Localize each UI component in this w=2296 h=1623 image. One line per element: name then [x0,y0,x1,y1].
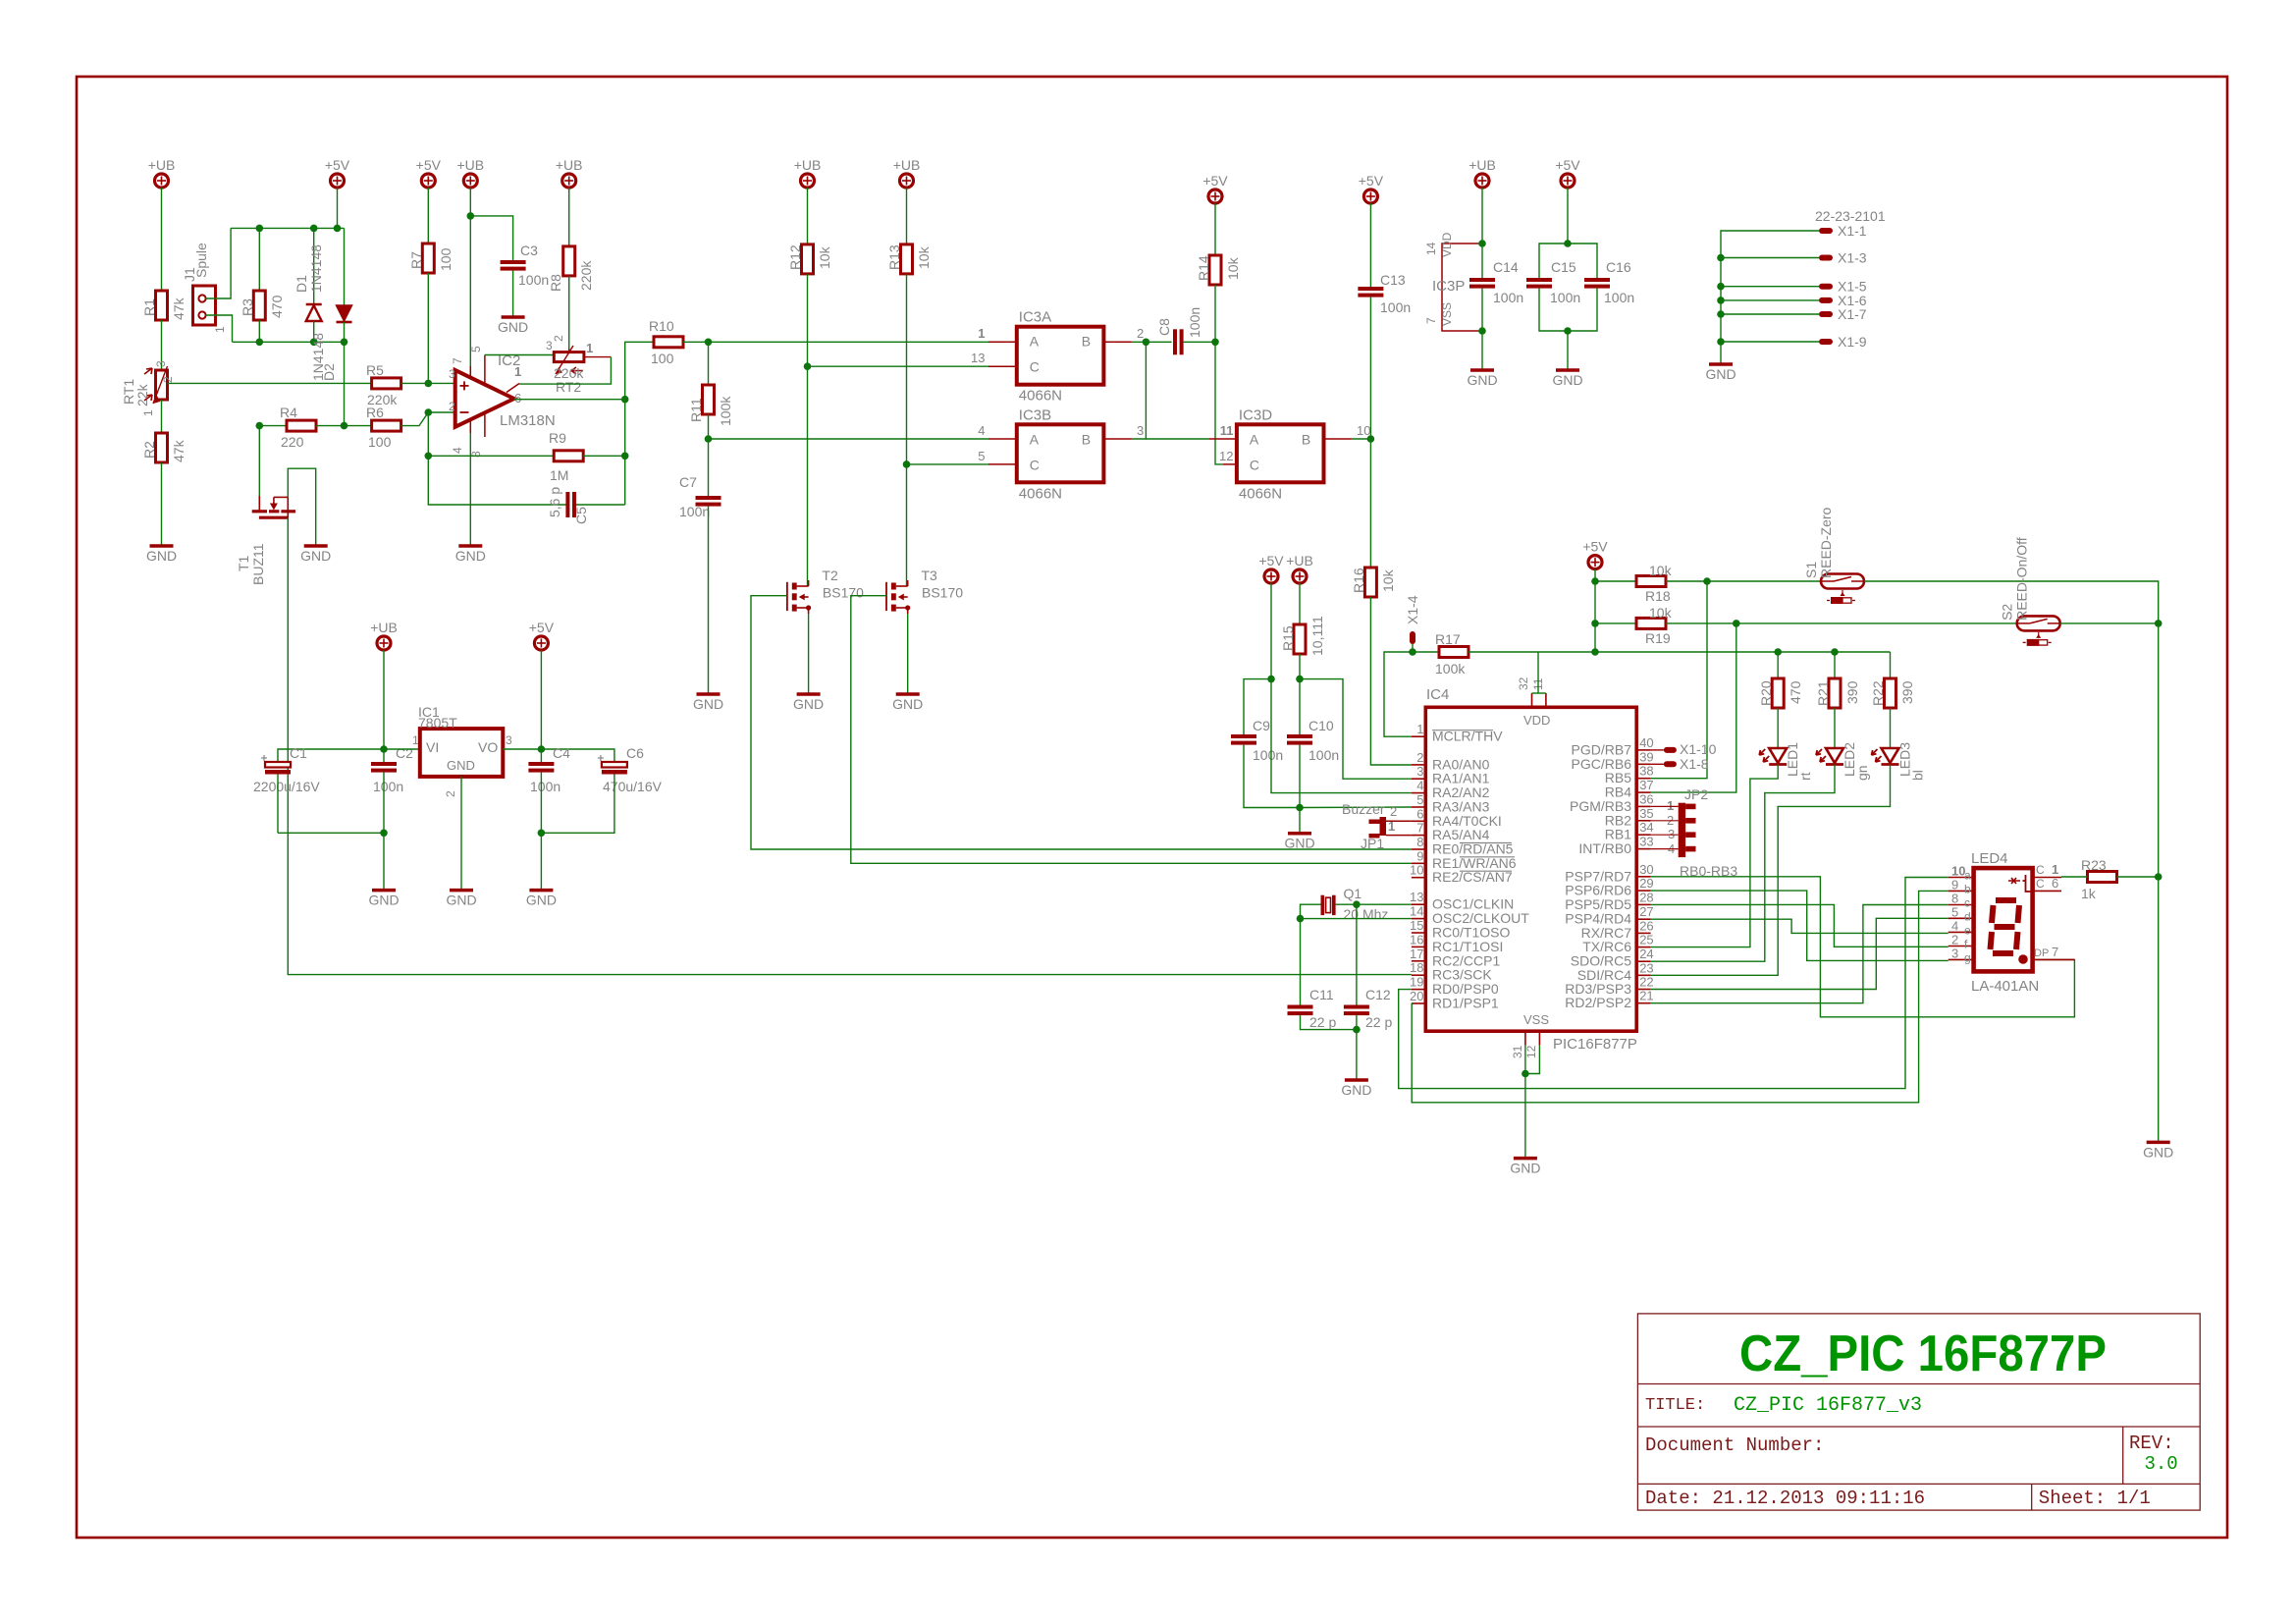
wire to GND [540,833,542,890]
svg-text:C: C [2036,863,2045,877]
svg-text:1: 1 [586,341,593,355]
svg-text:25: 25 [1639,933,1653,947]
svg-text:+5V: +5V [1258,553,1284,568]
ground (op-amp) [455,546,486,564]
wire R5 to +input [401,382,455,384]
svg-text:PIC16F877P: PIC16F877P [1553,1036,1637,1053]
svg-text:22-23-2101: 22-23-2101 [1815,208,1886,224]
wire IC3D pin10 stub [1324,423,1371,439]
svg-text:27: 27 [1639,904,1653,919]
resistor R17 100k [1435,631,1468,676]
wire C13 down [1369,298,1371,568]
connector pin X1-6 [1819,293,1867,308]
node (OSC1/C12) [1353,900,1361,908]
node [1717,297,1725,304]
wire -input col down [427,412,429,456]
svg-text:100n: 100n [373,779,403,794]
svg-text:17: 17 [1410,947,1423,961]
svg-text:10: 10 [1357,423,1370,438]
svg-text:GND: GND [1552,372,1582,388]
wire JP2 pin [1651,805,1679,807]
node (R11/C7/IC3B) [705,435,713,443]
svg-text:+UB: +UB [456,157,484,173]
wire to IC3B pin5 [907,463,989,465]
wire R4-R6 [316,425,372,427]
svg-text:100n: 100n [1550,290,1580,305]
svg-text:X1-4: X1-4 [1405,595,1420,624]
wire JP2 pin [1651,834,1679,836]
connector J1 Spule [182,243,227,333]
wire S1 right [1864,581,2159,623]
power +5V (R7) [416,157,442,188]
svg-text:R14: R14 [1196,255,1211,281]
svg-text:A: A [1030,431,1040,447]
svg-text:R22: R22 [1870,680,1886,706]
svg-text:C12: C12 [1365,987,1391,1002]
svg-text:24: 24 [1639,947,1653,961]
svg-text:1: 1 [213,326,227,333]
svg-text:JP2: JP2 [1684,786,1708,802]
wire pin30 to DP [1651,877,2075,1017]
wire top rail [231,227,344,229]
wire RB4 col [1651,623,1736,792]
capacitor C15 100n [1526,259,1580,305]
node (D2 bottom) [341,339,348,347]
svg-text:GND: GND [447,758,475,773]
wire T1 drain to GND [288,468,315,546]
wire R19 to S2 [1666,622,2017,624]
svg-text:A: A [1250,431,1259,447]
svg-text:Document Number:: Document Number: [1645,1434,1824,1456]
svg-text:+UB: +UB [1468,157,1496,173]
svg-text:8: 8 [1951,892,1958,906]
svg-text:2200u/16V: 2200u/16V [253,779,320,794]
svg-text:100n: 100n [1187,307,1202,338]
voltage regulator IC1 7805T [412,704,512,797]
node (C15 top) [1564,240,1572,247]
node (C10 bottom) [1296,804,1304,812]
wire [161,462,163,546]
node (C10 row +UB) [1296,676,1304,683]
svg-text:34: 34 [1639,820,1653,835]
analog switch IC3B 4066N [1017,406,1104,502]
wire OSC2 [1301,918,1412,920]
title block [1637,1314,2200,1510]
svg-text:21: 21 [1639,989,1653,1003]
wire to C3 [470,216,512,260]
power +5V (C13) [1359,173,1384,203]
svg-text:X1-1: X1-1 [1838,223,1867,239]
analog switch IC3D 4066N [1237,406,1324,502]
node (C14 bottom) [1478,327,1486,335]
svg-text:8: 8 [1416,835,1423,849]
svg-text:3: 3 [506,733,512,747]
jumper JP2 RB0-RB3 [1667,786,1737,879]
power +UB (IC3P) [1468,157,1496,188]
svg-text:100n: 100n [1253,747,1283,763]
resistor R19 10k [1636,605,1673,646]
wire R11 down [708,342,710,385]
wire C10 bottom [1299,745,1301,808]
wire C6 bottom [541,775,614,834]
wire [1214,203,1216,255]
svg-text:R23: R23 [2081,857,2107,873]
node (R10/R11) [705,339,713,347]
wire bottom rail [233,341,345,343]
svg-text:5: 5 [978,449,985,463]
svg-text:4066N: 4066N [1019,485,1062,502]
svg-text:Spule: Spule [193,243,209,278]
IC4 right pins [1565,735,1653,1010]
wire [1567,188,1569,243]
svg-text:+5V: +5V [1202,173,1228,189]
node (C9 row +5V) [1267,676,1275,683]
svg-text:+UB: +UB [794,157,822,173]
svg-text:RD1/PSP1: RD1/PSP1 [1432,996,1499,1011]
capacitor C6 470u/16V [598,745,663,794]
svg-text:2: 2 [1951,933,1958,947]
svg-text:IC3B: IC3B [1019,406,1051,423]
svg-text:C: C [1030,359,1040,375]
resistor R16 10k [1351,568,1396,597]
connector pin X1-7 [1819,306,1867,322]
wire X1 bus [1721,231,1819,364]
capacitor C4 100n [528,745,570,794]
wire R12 to T2 drain [807,274,809,586]
power +UB (op-amp V+) [456,157,484,188]
wire LED3 cathode [1651,765,1891,976]
wire R6 jog to -input [401,412,455,426]
wire LED1 cathode [1651,765,1779,947]
capacitor C1 2200u/16V [253,745,320,794]
svg-text:R16: R16 [1351,568,1366,593]
svg-text:100n: 100n [518,272,549,288]
node (X1-4/R17) [1409,648,1416,656]
svg-text:10k: 10k [817,245,832,269]
power +UB (C1/C2) [370,620,398,650]
node (R20 top) [1774,648,1782,656]
wire D2 bottom [344,322,346,342]
node (R4 left) [256,422,264,430]
svg-text:2: 2 [1137,326,1144,341]
capacitor C9 100n [1231,718,1283,763]
wire IC3A pin13 stub [971,351,1017,366]
svg-text:C14: C14 [1493,259,1519,275]
svg-text:S1: S1 [1803,562,1819,578]
svg-text:100: 100 [438,247,454,271]
svg-text:VDD: VDD [1440,232,1454,257]
wire R3 bottom [258,320,260,342]
svg-text:Buzzer: Buzzer [1342,801,1385,817]
svg-text:12: 12 [1524,1045,1538,1058]
wire C10 GND [1299,808,1301,834]
op-amp IC2 LM318N [449,346,556,458]
wire C2 down wire [383,749,385,762]
wire VO wire [503,748,541,750]
wire C11 bottom [1301,1015,1357,1030]
svg-text:C3: C3 [520,243,538,258]
svg-text:RT2: RT2 [556,379,581,395]
power +UB (R12) [794,157,822,188]
svg-text:GND: GND [892,696,923,712]
svg-text:10k: 10k [1380,568,1396,592]
capacitor C7 100n [679,474,721,519]
node (R19 left) [1591,620,1599,627]
capacitor C2 100n [371,745,413,794]
IC4 VSS pins [1511,1031,1539,1058]
capacitor C13 100n [1358,272,1411,315]
svg-text:C7: C7 [679,474,697,490]
svg-text:R13: R13 [886,244,902,270]
wire R23 left to LED4 C1 [2061,876,2088,878]
wire R19 left stub [1595,622,1636,624]
ground (VSS) [1510,1159,1540,1176]
svg-text:bl: bl [1910,770,1926,781]
wire IC3D pin11 to IC3B out [1146,438,1208,440]
wire JP2 pin [1651,848,1679,850]
svg-text:3: 3 [1951,946,1958,960]
svg-text:3: 3 [1668,827,1675,841]
resistor R15 10,111 [1280,616,1325,656]
svg-text:11: 11 [1220,423,1234,438]
svg-text:26: 26 [1639,918,1653,933]
svg-text:22 p: 22 p [1309,1014,1336,1030]
wire IC3B pin3 stub [1103,423,1144,439]
wire C4 down [540,749,542,762]
wire [1721,313,1819,315]
svg-text:R20: R20 [1758,680,1774,706]
svg-text:2: 2 [444,790,457,797]
wire R18 left stub [1595,580,1636,582]
svg-text:14: 14 [1410,904,1423,919]
wire IC2 pin5 to RT2 pin3 [485,354,554,356]
svg-text:IC3D: IC3D [1239,406,1272,423]
label 22-23-2101 [1815,208,1886,224]
svg-text:R11: R11 [688,398,704,422]
wire IC3B pin5 stub [978,449,1017,464]
svg-text:220k: 220k [578,260,594,291]
resistor R7 100 [408,243,454,273]
wire [1721,286,1819,288]
svg-text:C: C [1250,457,1259,472]
wire D2 col down to R4/R6 row [344,342,346,425]
svg-text:22k: 22k [134,383,150,406]
capacitor C8 100n [1156,307,1202,354]
resistor R2 47k [141,433,187,462]
wire R9 right [583,455,625,457]
svg-text:GND: GND [498,319,528,335]
wire IC3B out up to C8 node [1132,342,1147,439]
node (R9 left) [425,453,433,460]
svg-text:6: 6 [514,391,521,406]
svg-text:3: 3 [154,360,168,367]
svg-text:14: 14 [1424,242,1438,255]
svg-text:GND: GND [455,548,486,564]
svg-text:35: 35 [1639,806,1653,821]
node (R23 right) [2155,873,2163,881]
svg-text:2: 2 [161,376,175,383]
wire R21 drop [1834,652,1836,678]
svg-text:GND: GND [1341,1082,1371,1098]
svg-text:VI: VI [426,739,439,755]
svg-text:220: 220 [281,434,304,450]
wire C1-C2 bottom rail [278,832,384,834]
svg-text:T2: T2 [822,568,838,583]
wire [161,320,163,370]
wire output col up to R10 [625,342,654,399]
wire R11 to C7 [708,414,710,496]
svg-text:3.0: 3.0 [2145,1453,2178,1475]
wire C15/C16 top rail [1539,243,1597,278]
svg-text:REV:: REV: [2129,1433,2174,1454]
ground (C14) [1467,370,1497,388]
IC4 VDD pins [1517,676,1546,707]
svg-text:9: 9 [1951,877,1958,892]
svg-text:4066N: 4066N [1239,485,1282,502]
wire JP2 pin [1651,820,1679,822]
svg-text:R1: R1 [141,298,157,316]
node (VSS) [1522,1070,1529,1078]
svg-text:X1-7: X1-7 [1838,306,1867,322]
svg-text:7805T: 7805T [418,715,457,730]
wire output row [514,399,625,401]
svg-text:C: C [1030,457,1040,472]
svg-text:100n: 100n [1493,290,1523,305]
node (C11/C12) [1353,1026,1361,1034]
node (R3 top) [256,225,264,233]
svg-text:R5: R5 [366,362,384,378]
svg-text:GND: GND [1284,836,1314,851]
wire right rail down [2158,623,2160,877]
power +UB (R15) [1286,553,1313,583]
wire S2 right [2060,622,2159,624]
resistor R10 100 [649,318,683,366]
wire pin27 to e [1651,919,1949,933]
wire C14 bottom [1481,289,1483,370]
svg-text:LED4: LED4 [1971,850,2008,867]
wire op-amp V- to GND [469,433,471,546]
power +UB (R13) [893,157,921,188]
wire C11 col [1300,919,1302,1005]
wire IC3D pin12 stub [1219,449,1237,464]
svg-text:15: 15 [1410,918,1423,933]
ground (C1/C2) [368,891,399,908]
svg-text:R17: R17 [1435,631,1461,647]
wire R15 bottom [1299,654,1301,679]
capacitor C14 100n [1469,259,1523,305]
display LED4 LA-401AN [1949,850,2075,995]
svg-text:30: 30 [1639,862,1653,877]
wire [427,188,429,243]
svg-text:C15: C15 [1551,259,1576,275]
ground (C11/C12) [1341,1080,1371,1098]
resistor R20 470 [1758,678,1803,708]
wire IC1 pin2 down [460,777,462,891]
svg-text:IC4: IC4 [1426,686,1449,703]
power +UB (R8) [556,157,583,188]
wire [383,650,385,749]
analog switch IC3A 4066N [1017,309,1104,405]
node (IC3A/IC3B join) [1143,339,1150,347]
node (IC3B pin5 tap) [903,460,911,468]
node (RB5 tap) [1703,577,1711,585]
svg-text:a: a [1964,869,1971,883]
LED LED1 rt [1759,708,1813,781]
svg-text:rt: rt [1797,772,1813,781]
svg-text:2: 2 [1416,750,1423,765]
connector pin X1-4 [1405,595,1420,644]
diode D2 1N4148 [310,305,352,381]
resistor R11 100k [688,385,733,426]
power +UB (R1 top) [148,157,176,188]
resistor R4 220 [280,405,316,450]
node (-input) [425,408,433,416]
node (+5V rail R17) [1591,648,1599,656]
svg-text:Date: 21.12.2013 09:11:16: Date: 21.12.2013 09:11:16 [1645,1488,1925,1509]
svg-text:VDD: VDD [1523,713,1550,728]
svg-text:R4: R4 [280,405,297,420]
svg-text:JP1: JP1 [1361,836,1384,851]
node (IC3D out / R16) [1367,435,1375,443]
wire VSS to GND [1524,1074,1526,1159]
resistor R14 10k [1196,255,1241,285]
wire to IC3A pin13 [808,365,989,367]
svg-text:B: B [1302,431,1310,447]
svg-text:GND: GND [526,893,557,908]
svg-text:10k: 10k [916,245,932,269]
svg-text:BS170: BS170 [922,585,963,601]
svg-text:+UB: +UB [893,157,921,173]
svg-text:2: 2 [449,400,455,413]
svg-text:GND: GND [693,696,723,712]
wire [807,188,809,244]
svg-text:c: c [1964,896,1970,910]
wire RD1 rail [1412,891,1949,1102]
wire C7 to GND [708,507,710,694]
capacitor C11 22p [1288,987,1337,1030]
svg-text:100n: 100n [679,504,710,519]
svg-text:32: 32 [1517,676,1530,690]
node (OSC2/C11) [1297,915,1305,923]
svg-text:X1-10: X1-10 [1680,741,1717,757]
svg-text:7: 7 [1416,821,1423,836]
svg-text:3: 3 [1137,423,1144,438]
svg-text:40: 40 [1639,735,1653,750]
wire RT1 wiper to R5 [168,382,372,384]
node [1717,283,1725,291]
svg-text:10: 10 [1410,863,1423,878]
svg-text:D2: D2 [321,363,337,381]
wire VDD feed [1537,652,1539,693]
wire C1 branch [278,749,384,762]
wire J1 pin1 down [206,315,233,342]
svg-text:10,111: 10,111 [1309,616,1325,656]
svg-text:29: 29 [1639,876,1653,891]
svg-text:13: 13 [1410,890,1423,904]
connector pin X1-1 [1819,223,1867,239]
svg-text:7: 7 [451,357,464,364]
node (D2 col/R4-R6) [341,422,348,430]
svg-text:C9: C9 [1253,718,1270,733]
resistor R5 220k [366,362,401,407]
wire J1 pin2 up [206,228,232,298]
svg-text:22: 22 [1639,975,1653,990]
svg-text:VO: VO [478,739,498,755]
svg-text:IC3P: IC3P [1432,278,1465,295]
wire R4 node down to T1 gate [258,426,260,510]
svg-text:X1-8: X1-8 [1680,756,1709,772]
node (R9 right) [621,453,629,460]
